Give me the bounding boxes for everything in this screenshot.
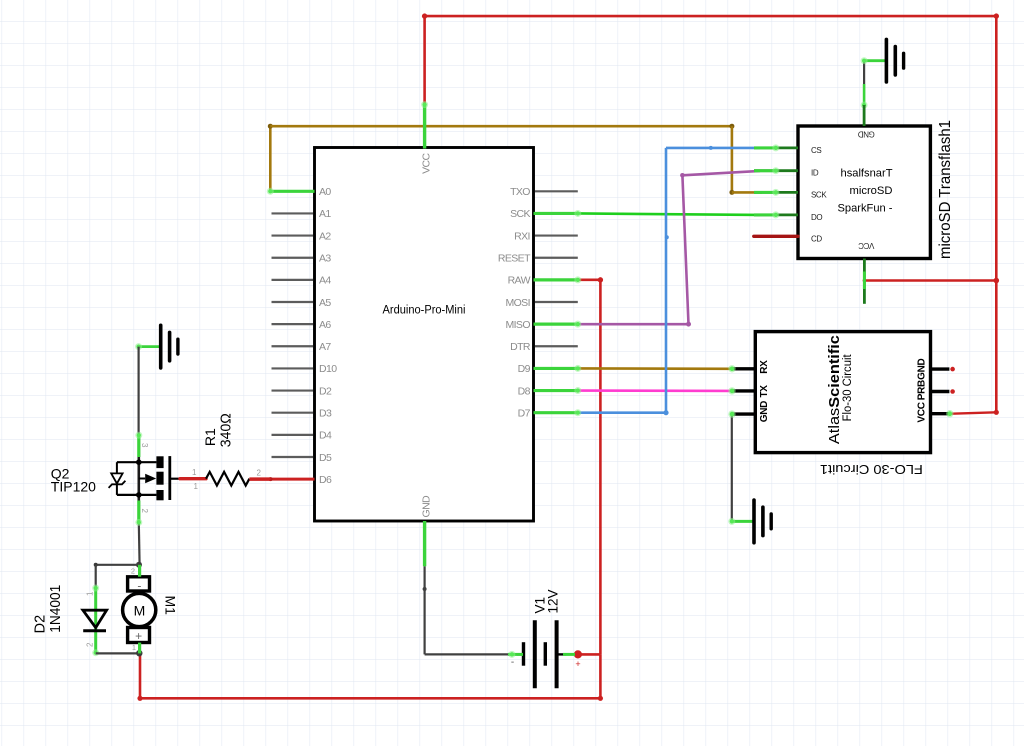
transistor Q2 top bar [117,461,156,463]
IC U1 Arduino-Pro-Mini box [315,148,534,522]
svg-text:2: 2 [131,567,135,576]
pin Atlas GND (right) [931,367,950,370]
wire brown: vertical at A0 [269,126,272,191]
pin RXI [535,234,578,236]
svg-text:SparkFun -: SparkFun - [838,203,893,215]
pin A2 [272,234,314,236]
node brown top-left corner [268,124,273,129]
wire brown: D9 to Atlas RX [578,367,733,370]
node blue mid vertical [665,235,669,239]
wire gray: ground down to Q2 collector [138,347,140,436]
node red right-vertical junction [994,278,1000,284]
wire blue: horizontal to CS [666,147,760,150]
pin microSD DO (dark green stub) [754,213,798,216]
wire red gate to R1 [180,477,206,480]
wire green Q2 collector connect [137,435,140,457]
pin A4 [272,279,314,281]
node red at Atlas VCC corner [994,410,999,415]
svg-text:VCC: VCC [421,152,433,173]
wire blue: vertical up [665,148,668,413]
node green at ground 3 [728,518,735,525]
svg-text:+: + [575,659,580,669]
node junction motor top [136,562,142,568]
pin SCK (connected, green) [534,212,578,215]
wire red: Arduino VCC up [423,16,426,105]
pin microSD CS (dark green stub) [754,146,798,149]
resistor R1 zigzag [206,472,249,486]
wire brown: top horizontal [270,125,732,128]
wire gray: microSD GND riser [863,61,865,84]
ground 2 bars [886,39,903,82]
node brown bottom corner [729,190,734,195]
pin D8 (connected, green) [534,389,578,392]
svg-text:A4: A4 [319,275,331,287]
wire gray: horizontal to battery minus [425,653,512,655]
pin RESET [535,257,578,259]
svg-text:Flo-30 Circuit: Flo-30 Circuit [842,354,854,422]
motor M1 bottom terminal box [128,628,150,643]
svg-text:GND: GND [858,130,875,139]
svg-text:M1: M1 [163,596,179,616]
node violet bend top [680,173,685,178]
wire gray: bottom of diode branch to junction [96,652,140,654]
svg-text:-: - [511,657,514,668]
node battery plus terminal [574,650,582,658]
svg-text:A5: A5 [319,297,331,309]
svg-text:GND: GND [759,401,770,422]
transistor Q2 internal diode triangle [111,473,122,483]
wire green: to ground symbol 2 [864,59,886,62]
node Q2 top junction [136,459,142,465]
wire green microSD VCC connect segment [863,272,866,290]
svg-text:D2: D2 [32,615,48,634]
node green at ground 1 [135,343,142,350]
svg-text:D9: D9 [518,363,531,375]
svg-text:D10: D10 [319,363,337,375]
node green Atlas RX [728,365,735,372]
node junction motor bottom [136,650,142,656]
pin D3 [272,412,314,414]
svg-text:TXO: TXO [510,186,530,198]
wire red: RAW to corner [578,279,601,282]
svg-text:TIP120: TIP120 [51,479,96,495]
node green Atlas GND [728,410,735,417]
svg-text:A7: A7 [319,341,331,353]
diode D2 cathode bar [83,629,106,632]
wire green: diode branch [94,588,97,653]
ground 3 bars [754,500,771,543]
node green Atlas TX [728,387,735,394]
svg-text:ID: ID [811,169,819,178]
wire green battery minus connect [508,653,523,656]
svg-text:DTR: DTR [510,341,531,353]
node green top of diode branch [92,585,99,592]
pin D7 (connected, green) [534,411,578,414]
svg-text:CD: CD [811,234,822,243]
svg-text:RAW: RAW [508,275,531,287]
wire green Q2 emitter connect [137,501,140,523]
svg-text:DO: DO [811,213,822,222]
svg-text:VCC: VCC [917,402,928,422]
wire red: tap to microSD VCC [864,279,996,281]
pin RAW (connected, green) [534,278,578,281]
svg-text:A1: A1 [319,208,331,220]
ground 1 bars [161,325,178,368]
wire green: Arduino SCK to microSD DO [578,213,760,214]
wire gray: junction left [96,564,140,566]
node green battery minus [508,651,515,658]
wire red: battery plus to vertical [578,653,601,656]
svg-text:VCC: VCC [858,241,874,250]
node red top-left corner [422,13,427,18]
pin A0 (connected, green) [270,190,314,193]
svg-text:D7: D7 [518,408,531,420]
node green Atlas VCC right [946,410,953,417]
svg-text:R1: R1 [202,428,218,446]
pin microSD CD (dark red wire) [754,235,798,238]
pin Atlas VCC (right) [931,412,950,415]
battery V1 plates [524,620,557,688]
svg-text:1N4001: 1N4001 [48,585,64,633]
pin Atlas RX (left) [732,367,755,370]
motor M1 top terminal box [128,577,150,591]
svg-text:Arduino-Pro-Mini: Arduino-Pro-Mini [383,305,466,317]
motor M1 circle [123,593,156,626]
svg-text:D6: D6 [319,474,332,486]
wire brown: into microSD SCK pin [732,191,762,194]
svg-text:1: 1 [132,643,136,652]
pin motor 2 (green stub top) [138,565,141,577]
transistor Q2 gate lead [170,478,180,480]
svg-text:2: 2 [86,642,95,647]
node red unconnected Atlas PRB [950,389,955,394]
svg-text:FLO-30 Circuit1: FLO-30 Circuit1 [820,462,923,477]
node brown top-right corner [729,124,734,129]
pin TXO [535,190,578,192]
node green at microSD GND stub [861,102,868,109]
svg-text:TX: TX [759,385,770,398]
svg-text:1: 1 [86,591,95,596]
pin D5 [272,456,314,458]
svg-text:3: 3 [140,443,149,448]
battery plus terminal lead [557,653,566,655]
pin microSD SCK (dark green stub) [754,191,798,194]
node red unconnected Atlas GND [950,367,955,372]
pin GND (bottom, connected) [423,521,426,566]
pin A7 [272,345,314,347]
wire brown: vertical down to SCK row [731,126,734,192]
node red top-right corner [994,13,999,18]
wire red: up to motor junction [139,653,142,698]
pin D9 (connected, green) [534,367,578,370]
pin Atlas PRB (right) [931,390,950,393]
svg-text:PRB: PRB [917,380,928,400]
node red at microSD VCC tap [863,279,867,283]
transistor Q2 channel rects [156,456,163,468]
svg-text:D4: D4 [319,430,332,442]
svg-text:D5: D5 [319,452,332,464]
pin MISO (connected, green) [534,323,578,326]
svg-text:D2: D2 [319,385,332,397]
svg-text:RX: RX [759,360,770,374]
svg-text:A6: A6 [319,319,331,331]
svg-text:-: - [137,579,141,593]
wire red: vertical down to bottom rail [599,654,602,698]
transistor Q2 gate bar [168,456,171,500]
svg-text:+: + [135,629,142,643]
node green at ground 2 [861,57,868,64]
node corner left [94,563,98,567]
pin Atlas TX (left) [732,389,755,392]
pin A5 [272,301,314,303]
wire red R1 to D6 [249,477,270,480]
svg-text:2: 2 [140,509,149,514]
svg-text:A2: A2 [319,230,331,242]
diode D2 triangle [83,610,107,627]
pin Atlas GND (left) [732,412,755,415]
wire violet: MISO to bend [578,323,689,326]
wire green: to ground symbol 1 [139,345,161,348]
svg-text:1: 1 [194,482,199,491]
wire gray: Q2 emitter down to junction [138,522,141,564]
wire green: to ground symbol 3 [732,520,754,523]
svg-text:340Ω: 340Ω [219,413,235,447]
node red bottom-right corner [598,696,603,701]
pin D2 [272,389,314,391]
svg-text:A0: A0 [319,186,331,198]
svg-text:MOSI: MOSI [505,297,529,309]
svg-text:SCK: SCK [811,190,827,199]
svg-text:SCK: SCK [510,208,530,220]
wire gray: Arduino GND down [424,566,426,654]
node green microSD ID [754,169,776,172]
transistor Q2 arrow [145,474,156,484]
node green Q2 emitter [135,519,142,526]
node Q2 bottom junction [136,492,142,498]
IC microSD Transflash box [798,126,930,259]
pin VCC (top, connected) [423,104,426,149]
pin microSD GND (top) [863,105,866,126]
svg-text:RXI: RXI [514,230,530,242]
pin MOSI [535,301,578,303]
node blue corner [663,410,668,415]
svg-text:microSD: microSD [850,185,893,197]
svg-text:hsalfsnarT: hsalfsnarT [841,168,893,180]
wire green battery plus connect [563,653,575,656]
transistor Q2 collector line [138,435,141,522]
svg-text:D3: D3 [319,408,332,420]
wire red: right vertical [995,16,998,412]
wire violet: vertical bend [682,175,688,324]
node red bottom-left corner [137,696,142,701]
pin D10 [272,367,314,369]
IC Atlas Scientific Flo-30 box [755,332,930,453]
transistor Q2 internal zener bar [109,481,126,488]
wire red: vertical to battery plus [599,280,602,655]
svg-text:2: 2 [257,469,262,478]
pin microSD ID (dark green stub) [754,169,798,172]
svg-text:GND: GND [917,358,928,379]
pin D4 [272,434,314,436]
node green microSD SCK [754,191,776,194]
svg-text:AtlasScientific: AtlasScientific [826,335,843,444]
svg-text:A3: A3 [319,253,331,265]
svg-text:M: M [134,603,146,619]
svg-text:12V: 12V [546,589,561,613]
svg-text:1: 1 [192,468,197,477]
svg-text:D8: D8 [518,385,531,397]
node green Q2 collector [135,432,142,439]
wire green: microSD GND connect segment [863,84,866,105]
svg-text:GND: GND [421,495,433,518]
node green microSD DO [754,213,776,216]
wire gray: down left branch [95,565,97,588]
pin microSD VCC (bottom) [863,259,866,304]
node red RAW corner [598,277,603,282]
wire blue: D7 horizontal [578,411,666,414]
battery minus terminal lead [517,653,524,655]
transistor Q2 base-arrow line [139,478,145,480]
node gray bendpoint [423,587,427,591]
svg-text:RESET: RESET [498,253,531,265]
svg-text:microSD Transflash1: microSD Transflash1 [937,120,954,259]
node green bottom of diode branch [92,649,99,656]
pin DTR [535,345,578,347]
node violet bend bottom [686,322,691,327]
transistor Q2 diode branch vertical [116,462,118,473]
pin D6 (red wire from R1) [271,478,315,481]
pin motor 1 (green stub bottom) [138,643,141,654]
wire red: Atlas VCC to right vertical [952,412,996,413]
wire red: top horizontal [425,15,997,18]
node blue mid horizontal [709,146,713,150]
wire red: bottom rail [140,697,600,700]
node green microSD CS [754,146,776,149]
wire pink: D8 to Atlas TX [578,389,733,392]
svg-text:MISO: MISO [505,319,530,331]
wire gray: Atlas GND down [731,414,733,521]
transistor Q2 bottom bar [117,494,156,496]
pin A6 [272,323,314,325]
pin A3 [272,257,314,259]
wire violet: to microSD ID pin [682,171,760,175]
pin A1 [272,212,314,214]
svg-text:CS: CS [811,146,821,155]
